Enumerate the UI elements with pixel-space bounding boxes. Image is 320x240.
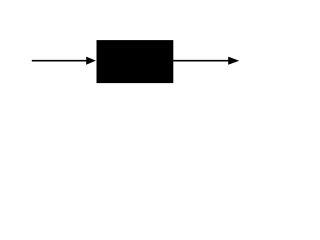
wire input arrow shaft — [32, 60, 88, 62]
wire output arrow shaft — [173, 60, 229, 62]
wire input arrowhead — [86, 57, 96, 65]
block (system box) — [97, 40, 174, 83]
wire output arrowhead — [228, 57, 239, 65]
